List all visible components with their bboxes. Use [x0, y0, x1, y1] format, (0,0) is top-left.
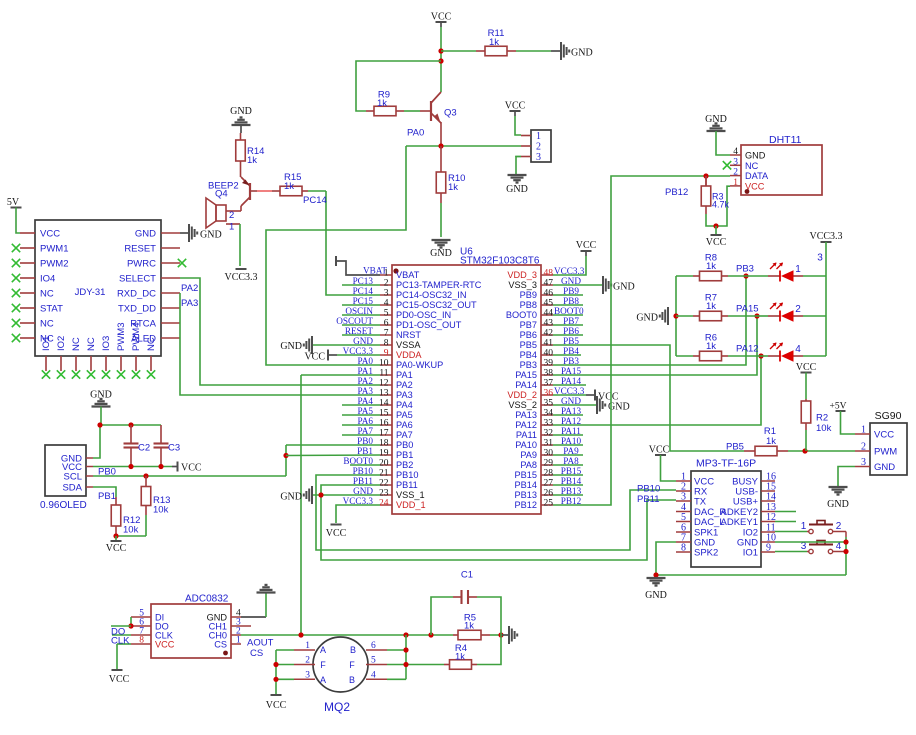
svg-text:VSS_2: VSS_2 — [508, 400, 537, 410]
svg-text:PA0-WKUP: PA0-WKUP — [396, 360, 443, 370]
svg-text:GND: GND — [636, 313, 658, 324]
svg-text:PB1: PB1 — [396, 450, 413, 460]
svg-text:PA12: PA12 — [736, 344, 759, 355]
svg-text:1k: 1k — [455, 652, 465, 663]
svg-text:PA4: PA4 — [396, 400, 413, 410]
svg-text:VCC: VCC — [796, 362, 817, 373]
svg-text:2: 2 — [795, 304, 801, 315]
svg-text:PA13: PA13 — [515, 410, 537, 420]
svg-text:10: 10 — [379, 359, 389, 369]
svg-text:STM32F103C8T6: STM32F103C8T6 — [460, 256, 540, 267]
svg-text:1: 1 — [861, 425, 866, 436]
svg-text:B: B — [350, 645, 356, 655]
svg-text:PA2: PA2 — [396, 380, 413, 390]
svg-text:PA8: PA8 — [520, 460, 537, 470]
svg-text:B: B — [349, 675, 355, 685]
svg-text:42: 42 — [544, 329, 554, 339]
svg-text:GND: GND — [200, 230, 222, 241]
svg-text:PB7: PB7 — [520, 320, 537, 330]
svg-text:GND: GND — [571, 48, 593, 59]
svg-text:19: 19 — [379, 449, 389, 459]
svg-text:NC: NC — [86, 337, 97, 351]
svg-text:2: 2 — [305, 656, 310, 666]
svg-text:22: 22 — [379, 479, 389, 489]
svg-text:GND: GND — [645, 590, 667, 601]
svg-text:34: 34 — [544, 409, 554, 419]
svg-text:SELECT: SELECT — [119, 274, 156, 285]
svg-text:GND: GND — [430, 248, 452, 259]
svg-text:0.96OLED: 0.96OLED — [40, 500, 87, 511]
svg-text:USB+: USB+ — [733, 497, 759, 508]
svg-text:4: 4 — [371, 670, 376, 680]
svg-text:NC: NC — [71, 337, 82, 351]
svg-text:27: 27 — [544, 479, 554, 489]
svg-text:PB14: PB14 — [515, 480, 537, 490]
svg-text:PC13-TAMPER-RTC: PC13-TAMPER-RTC — [396, 280, 482, 290]
svg-text:1: 1 — [733, 178, 738, 188]
svg-text:32: 32 — [544, 429, 554, 439]
svg-text:1k: 1k — [464, 621, 474, 632]
svg-text:PA1: PA1 — [396, 370, 413, 380]
svg-text:26: 26 — [544, 489, 554, 499]
svg-text:36: 36 — [544, 389, 554, 399]
svg-text:VDDA: VDDA — [396, 350, 422, 360]
svg-text:11: 11 — [379, 369, 388, 379]
svg-text:1k: 1k — [706, 261, 716, 272]
svg-text:GND: GND — [874, 462, 895, 473]
svg-text:CS: CS — [250, 648, 263, 659]
svg-text:4: 4 — [733, 147, 738, 157]
svg-text:2: 2 — [836, 521, 842, 532]
svg-text:CLK: CLK — [111, 636, 130, 647]
svg-text:PB13: PB13 — [515, 490, 537, 500]
svg-text:VBAT: VBAT — [396, 270, 420, 280]
svg-text:1: 1 — [236, 636, 241, 646]
svg-text:GND: GND — [827, 499, 849, 510]
svg-text:GND: GND — [230, 106, 252, 117]
svg-text:2: 2 — [229, 210, 234, 221]
svg-text:PB4: PB4 — [520, 350, 537, 360]
svg-text:1k: 1k — [377, 98, 387, 109]
svg-text:PB3: PB3 — [520, 360, 537, 370]
svg-text:33: 33 — [544, 419, 554, 429]
svg-text:PA14: PA14 — [515, 380, 537, 390]
svg-text:STAT: STAT — [40, 304, 63, 315]
svg-text:NC: NC — [745, 161, 759, 171]
svg-text:48: 48 — [544, 269, 554, 279]
svg-text:PA12: PA12 — [515, 420, 537, 430]
svg-text:PA15: PA15 — [515, 370, 537, 380]
svg-text:PB10: PB10 — [396, 470, 418, 480]
svg-text:18: 18 — [379, 439, 389, 449]
svg-text:PA11: PA11 — [516, 430, 537, 440]
svg-text:23: 23 — [379, 489, 389, 499]
svg-text:VCC: VCC — [181, 463, 202, 474]
svg-text:1k: 1k — [247, 155, 257, 166]
svg-text:Q3: Q3 — [444, 108, 457, 119]
svg-text:14: 14 — [766, 492, 776, 503]
svg-text:31: 31 — [544, 439, 554, 449]
svg-text:VCC3.3: VCC3.3 — [224, 272, 257, 283]
svg-text:VSSA: VSSA — [396, 340, 421, 350]
svg-text:45: 45 — [544, 299, 554, 309]
svg-text:8: 8 — [139, 636, 144, 646]
svg-text:15: 15 — [379, 409, 389, 419]
svg-text:MP3-TF-16P: MP3-TF-16P — [696, 458, 756, 470]
svg-text:NC: NC — [146, 337, 157, 351]
svg-text:30: 30 — [544, 449, 554, 459]
svg-text:TX: TX — [694, 497, 707, 508]
svg-text:38: 38 — [544, 369, 554, 379]
svg-text:GND: GND — [613, 282, 635, 293]
svg-text:2: 2 — [384, 279, 389, 289]
svg-text:PB6: PB6 — [520, 330, 537, 340]
svg-text:1: 1 — [536, 131, 541, 142]
svg-text:7: 7 — [384, 329, 389, 339]
svg-text:PC14-OSC32_IN: PC14-OSC32_IN — [396, 290, 466, 300]
svg-text:1k: 1k — [284, 181, 294, 192]
svg-text:PD1-OSC_OUT: PD1-OSC_OUT — [396, 320, 462, 330]
svg-text:IO1: IO1 — [41, 336, 52, 351]
svg-text:PA0: PA0 — [358, 356, 374, 366]
svg-text:VCC: VCC — [431, 12, 452, 23]
svg-text:C2: C2 — [138, 443, 150, 454]
svg-text:20: 20 — [379, 459, 389, 469]
svg-text:35: 35 — [544, 399, 554, 409]
svg-text:PB5: PB5 — [726, 442, 744, 453]
svg-text:PB11: PB11 — [637, 494, 660, 505]
svg-text:NC: NC — [40, 319, 54, 330]
svg-text:RXD_DC: RXD_DC — [117, 289, 156, 300]
svg-text:GND: GND — [280, 341, 302, 352]
svg-text:2: 2 — [733, 168, 738, 178]
svg-text:DATA: DATA — [745, 171, 769, 181]
svg-text:VCC: VCC — [576, 240, 597, 251]
svg-text:1k: 1k — [706, 341, 716, 352]
svg-text:TXD_DD: TXD_DD — [118, 304, 156, 315]
svg-text:2: 2 — [536, 142, 541, 153]
svg-text:GND: GND — [506, 184, 528, 195]
svg-text:PA5: PA5 — [396, 410, 413, 420]
svg-text:VDD_3: VDD_3 — [507, 270, 537, 280]
svg-text:5: 5 — [681, 512, 686, 523]
svg-text:VCC: VCC — [155, 640, 175, 650]
svg-text:VCC3.3: VCC3.3 — [809, 231, 842, 242]
svg-text:44: 44 — [544, 309, 554, 319]
svg-text:IO3: IO3 — [101, 336, 112, 351]
svg-text:VCC: VCC — [109, 674, 130, 685]
svg-text:PWM1: PWM1 — [40, 244, 69, 255]
svg-text:PWM3: PWM3 — [116, 323, 127, 352]
svg-text:3: 3 — [536, 152, 541, 163]
svg-text:10k: 10k — [123, 525, 139, 536]
svg-text:VSS_1: VSS_1 — [396, 490, 425, 500]
svg-text:PWM2: PWM2 — [40, 259, 69, 270]
svg-text:F: F — [349, 660, 355, 670]
svg-text:37: 37 — [544, 379, 554, 389]
svg-text:PB10: PB10 — [637, 484, 660, 495]
svg-text:PB2: PB2 — [396, 460, 413, 470]
svg-text:PC15-OSC32_OUT: PC15-OSC32_OUT — [396, 300, 477, 310]
svg-text:5: 5 — [384, 309, 389, 319]
svg-text:12: 12 — [379, 379, 389, 389]
svg-text:4: 4 — [795, 344, 801, 355]
svg-text:24: 24 — [379, 499, 389, 509]
svg-text:17: 17 — [379, 429, 389, 439]
svg-text:NC: NC — [40, 289, 54, 300]
svg-text:9: 9 — [766, 543, 771, 554]
svg-text:16: 16 — [379, 419, 389, 429]
svg-text:PA0: PA0 — [407, 128, 424, 139]
svg-text:VDD_2: VDD_2 — [507, 390, 537, 400]
svg-text:1k: 1k — [706, 301, 716, 312]
svg-text:PWRC: PWRC — [127, 259, 156, 270]
svg-text:25: 25 — [544, 499, 554, 509]
svg-text:PA9: PA9 — [520, 450, 537, 460]
svg-text:5V: 5V — [7, 197, 20, 208]
svg-text:1: 1 — [795, 264, 801, 275]
svg-text:PC14: PC14 — [353, 286, 374, 296]
svg-text:14: 14 — [379, 399, 389, 409]
svg-text:4.7k: 4.7k — [712, 200, 730, 210]
svg-text:PB8: PB8 — [520, 300, 537, 310]
svg-text:PWM4: PWM4 — [131, 323, 142, 352]
svg-text:PB12: PB12 — [665, 187, 688, 198]
svg-text:R2: R2 — [816, 413, 828, 424]
svg-text:3: 3 — [305, 670, 310, 680]
svg-text:10k: 10k — [153, 505, 169, 516]
svg-text:PD0-OSC_IN: PD0-OSC_IN — [396, 310, 451, 320]
svg-text:PA3: PA3 — [358, 386, 374, 396]
svg-text:PA2: PA2 — [358, 376, 374, 386]
svg-text:10k: 10k — [816, 423, 832, 434]
svg-text:IO2: IO2 — [56, 336, 67, 351]
svg-text:A: A — [320, 675, 326, 685]
svg-text:40: 40 — [544, 349, 554, 359]
svg-text:6: 6 — [384, 319, 389, 329]
svg-text:VCC: VCC — [326, 528, 347, 539]
svg-text:ADKEY1: ADKEY1 — [721, 517, 759, 528]
svg-text:8: 8 — [681, 543, 686, 554]
svg-text:1: 1 — [229, 222, 234, 233]
svg-text:3: 3 — [817, 253, 823, 264]
svg-text:JDY-31: JDY-31 — [75, 287, 106, 298]
svg-text:12: 12 — [766, 512, 776, 523]
svg-text:2: 2 — [861, 442, 866, 453]
svg-text:IO4: IO4 — [40, 274, 55, 285]
svg-text:GND: GND — [135, 229, 156, 240]
svg-text:IO1: IO1 — [743, 548, 758, 559]
svg-text:VSS_3: VSS_3 — [508, 280, 537, 290]
svg-text:3: 3 — [681, 492, 686, 503]
svg-text:8: 8 — [384, 339, 389, 349]
svg-text:VCC: VCC — [874, 430, 894, 441]
svg-text:SCL: SCL — [64, 472, 82, 483]
svg-text:VCC: VCC — [304, 352, 325, 363]
svg-text:46: 46 — [544, 289, 554, 299]
svg-text:RESET: RESET — [124, 244, 156, 255]
svg-text:28: 28 — [544, 469, 554, 479]
svg-text:VCC: VCC — [505, 101, 526, 112]
svg-text:VCC: VCC — [649, 445, 670, 456]
svg-text:4: 4 — [384, 299, 389, 309]
svg-text:3: 3 — [733, 157, 738, 167]
svg-text:F: F — [320, 660, 326, 670]
svg-text:21: 21 — [379, 469, 389, 479]
svg-text:SDA: SDA — [62, 483, 82, 494]
svg-text:1k: 1k — [448, 182, 458, 193]
svg-text:PA3: PA3 — [181, 298, 198, 309]
svg-text:PB9: PB9 — [520, 290, 537, 300]
svg-text:PA6: PA6 — [396, 420, 413, 430]
svg-text:DHT11: DHT11 — [769, 134, 802, 146]
svg-text:GND: GND — [745, 151, 766, 161]
svg-text:1: 1 — [801, 521, 807, 532]
svg-text:1k: 1k — [489, 37, 499, 48]
svg-text:BOOT0: BOOT0 — [506, 310, 537, 320]
svg-text:PB3: PB3 — [736, 264, 754, 275]
svg-text:41: 41 — [544, 339, 554, 349]
svg-text:PA2: PA2 — [181, 283, 198, 294]
svg-text:PB5: PB5 — [520, 340, 537, 350]
svg-text:29: 29 — [544, 459, 554, 469]
svg-text:PA7: PA7 — [396, 430, 413, 440]
svg-text:GND: GND — [280, 492, 302, 503]
svg-text:PA3: PA3 — [396, 390, 413, 400]
svg-text:47: 47 — [544, 279, 554, 289]
svg-text:VCC: VCC — [40, 229, 60, 240]
svg-text:VDD_1: VDD_1 — [396, 500, 426, 510]
svg-text:C1: C1 — [461, 570, 473, 581]
svg-text:3: 3 — [384, 289, 389, 299]
svg-text:Q4: Q4 — [215, 189, 228, 200]
svg-text:VCC: VCC — [706, 237, 727, 248]
svg-text:PB12: PB12 — [515, 500, 537, 510]
svg-text:PC14: PC14 — [303, 195, 327, 206]
svg-text:AOUT: AOUT — [247, 638, 274, 649]
svg-text:C3: C3 — [168, 443, 180, 454]
svg-text:A: A — [320, 645, 326, 655]
svg-text:PWM: PWM — [874, 447, 897, 458]
svg-text:1: 1 — [305, 641, 310, 651]
svg-text:ADC0832: ADC0832 — [185, 594, 229, 605]
svg-text:PB0: PB0 — [98, 467, 116, 478]
svg-text:VCC: VCC — [266, 700, 287, 711]
svg-text:NRST: NRST — [396, 330, 421, 340]
svg-text:VBAT: VBAT — [363, 266, 387, 276]
svg-text:13: 13 — [379, 389, 389, 399]
svg-text:SPK2: SPK2 — [694, 548, 718, 559]
svg-text:39: 39 — [544, 359, 554, 369]
svg-text:VCC: VCC — [106, 543, 127, 554]
svg-text:SG90: SG90 — [875, 410, 902, 422]
svg-text:1k: 1k — [766, 436, 776, 447]
svg-text:3: 3 — [861, 457, 866, 468]
svg-text:6: 6 — [371, 641, 376, 651]
svg-text:43: 43 — [544, 319, 554, 329]
svg-text:CS: CS — [214, 640, 227, 650]
svg-text:PB11: PB11 — [396, 480, 418, 490]
svg-text:PB0: PB0 — [396, 440, 413, 450]
svg-text:PB1: PB1 — [98, 491, 116, 502]
svg-text:9: 9 — [384, 349, 389, 359]
svg-text:MQ2: MQ2 — [324, 700, 350, 714]
svg-text:5: 5 — [371, 656, 376, 666]
svg-text:PA10: PA10 — [515, 440, 537, 450]
svg-text:PA15: PA15 — [736, 304, 759, 315]
svg-text:PB15: PB15 — [515, 470, 537, 480]
